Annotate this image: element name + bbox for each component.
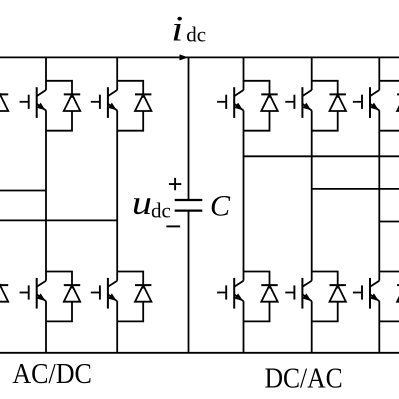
wire: AC output phase v from leg R2 [312,188,399,190]
AC/DC converter (left bridge) [0,57,151,389]
wire: diode anode back to emitter [117,302,143,322]
wire: phase leg R2 vertical [311,57,313,352]
dc-link capacitor C: top lead [188,57,190,200]
DC/AC converter (right bridge) [217,57,399,394]
IGBT QR2b [285,278,311,309]
label i_dc [171,9,183,49]
freewheeling diode DR2a [330,94,346,111]
polarity plus [169,178,181,190]
IGBT QR1b [217,278,243,309]
wire: diode anode back to emitter [312,111,338,131]
IGBT QR3b [353,278,379,309]
freewheeling diode DR2b [330,285,346,302]
svg-text:AC/DC: AC/DC [12,359,92,390]
wire: phase leg L1 vertical [45,57,47,352]
polarity minus [166,225,180,227]
capacitor plates [175,200,203,211]
freewheeling diode DL2b [135,285,151,302]
wire: AC phase b to leg L2 midpoint [0,219,117,221]
freewheeling diode DR1a [261,94,277,111]
wire: collector branch to diode cathode [244,81,270,98]
wire: diode anode back to emitter [244,302,270,322]
label u_dc [132,185,152,222]
wire: collector branch to diode cathode [117,272,143,289]
wire: AC phase a to leg L1 midpoint [0,190,46,192]
wire: diode anode back to emitter [117,111,143,131]
wire: diode anode back to emitter [46,302,72,322]
IGBT QR1a [217,87,243,118]
svg-text:DC/AC: DC/AC [265,363,343,394]
wire: collector branch to diode cathode [244,272,270,289]
freewheeling diode DR3a [397,94,399,111]
partial diode, left edge lower [0,285,8,302]
dc current arrow i_dc [180,55,188,60]
wire: diode anode back to emitter [244,111,270,131]
partial diode, left edge upper [0,94,8,111]
IGBT QR2a [285,87,311,118]
freewheeling diode DR1b [261,285,277,302]
wire: AC output phase u from leg R1 [244,155,399,157]
IGBT QL1b [20,278,46,309]
wire: phase leg R3 vertical [378,57,380,352]
wire: diode anode back to emitter [379,111,399,131]
capacitor bottom lead [188,211,190,353]
IGBT QL1a [20,87,46,118]
freewheeling diode DL1b [64,285,80,302]
wire: AC output phase w from leg R3 [379,221,399,223]
wire: diode anode back to emitter [46,111,72,131]
wire: collector branch to diode cathode [312,272,338,289]
wire: collector branch to diode cathode [312,81,338,98]
wire: diode anode back to emitter [312,302,338,322]
freewheeling diode DR3b [397,285,399,302]
svg-text:dc: dc [186,23,206,47]
svg-text:C: C [210,189,231,222]
freewheeling diode DL1a [64,94,80,111]
wire: collector branch to diode cathode [379,81,399,98]
wire: phase leg L2 vertical [116,57,118,352]
IGBT QL2a [91,87,117,118]
wire: collector branch to diode cathode [46,272,72,289]
svg-text:i: i [171,9,183,49]
wire: diode anode back to emitter [379,302,399,322]
wire: DC- bus (bottom rail) [0,352,399,354]
IGBT QR3a [353,87,379,118]
freewheeling diode DL2a [135,94,151,111]
wire: phase leg R1 vertical [243,57,245,352]
wire: DC+ bus (top rail) [0,56,399,58]
wire: collector branch to diode cathode [117,81,143,98]
wire: collector branch to diode cathode [46,81,72,98]
wire: collector branch to diode cathode [379,272,399,289]
svg-text:u: u [132,185,152,222]
svg-text:dc: dc [151,198,171,222]
IGBT QL2b [91,278,117,309]
